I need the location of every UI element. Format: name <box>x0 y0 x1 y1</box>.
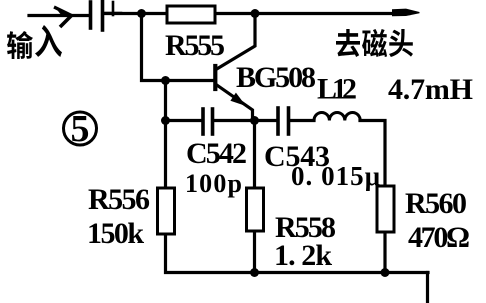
svg-text:0. 015μ: 0. 015μ <box>291 161 380 191</box>
svg-text:1. 2k: 1. 2k <box>274 239 332 272</box>
svg-text:R560: R560 <box>405 187 467 220</box>
svg-text:C542: C542 <box>186 137 247 170</box>
svg-text:150k: 150k <box>87 217 144 250</box>
svg-text:4.7mH: 4.7mH <box>388 73 473 106</box>
svg-text:5: 5 <box>71 108 90 150</box>
svg-text:R556: R556 <box>88 183 150 216</box>
svg-text:100p: 100p <box>185 169 242 198</box>
svg-text:R555: R555 <box>165 29 225 62</box>
svg-text:BG508: BG508 <box>236 61 316 94</box>
svg-text:470Ω: 470Ω <box>408 221 470 254</box>
svg-text:L12: L12 <box>317 73 357 106</box>
